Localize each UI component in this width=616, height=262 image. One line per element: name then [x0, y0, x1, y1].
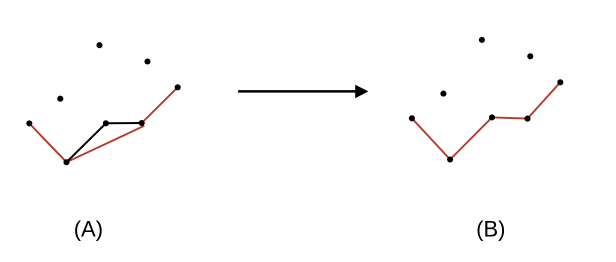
node A point 3	[175, 84, 181, 90]
node B point 3	[557, 79, 563, 85]
wire red edge A: point7 to point3	[142, 87, 178, 123]
wire red edge B: point5 to point8	[412, 118, 450, 159]
node A point 4	[57, 96, 63, 102]
svg-text:(B): (B)	[476, 217, 505, 242]
node B point 2	[527, 53, 533, 59]
arrow head	[355, 85, 368, 98]
wire red edge A: point8 to bend below point7	[67, 123, 144, 162]
arrow shaft	[238, 90, 356, 93]
node A point 8	[63, 159, 69, 165]
node A point 2	[144, 58, 150, 64]
node B point 4	[440, 91, 446, 97]
wire red edge B: point8 to point6	[450, 117, 492, 159]
node A point 6	[103, 120, 109, 126]
node B point 6	[489, 114, 495, 120]
node A point 7	[139, 120, 145, 126]
node A point 1	[96, 42, 102, 48]
wire black edge A: point8 to point6	[67, 123, 106, 162]
node A point 5	[26, 120, 32, 126]
node B point 1	[479, 37, 485, 43]
node B point 8	[447, 156, 453, 162]
node B point 5	[409, 115, 415, 121]
node B point 7	[524, 116, 530, 122]
wire red edge B: point7 to point3	[528, 82, 561, 118]
wire black edge A: point6 to point7	[106, 122, 142, 124]
svg-text:(A): (A)	[74, 217, 103, 242]
wire red edge A: point5 to point8	[29, 123, 66, 162]
wire red edge B: point6 to point7	[492, 117, 528, 118]
